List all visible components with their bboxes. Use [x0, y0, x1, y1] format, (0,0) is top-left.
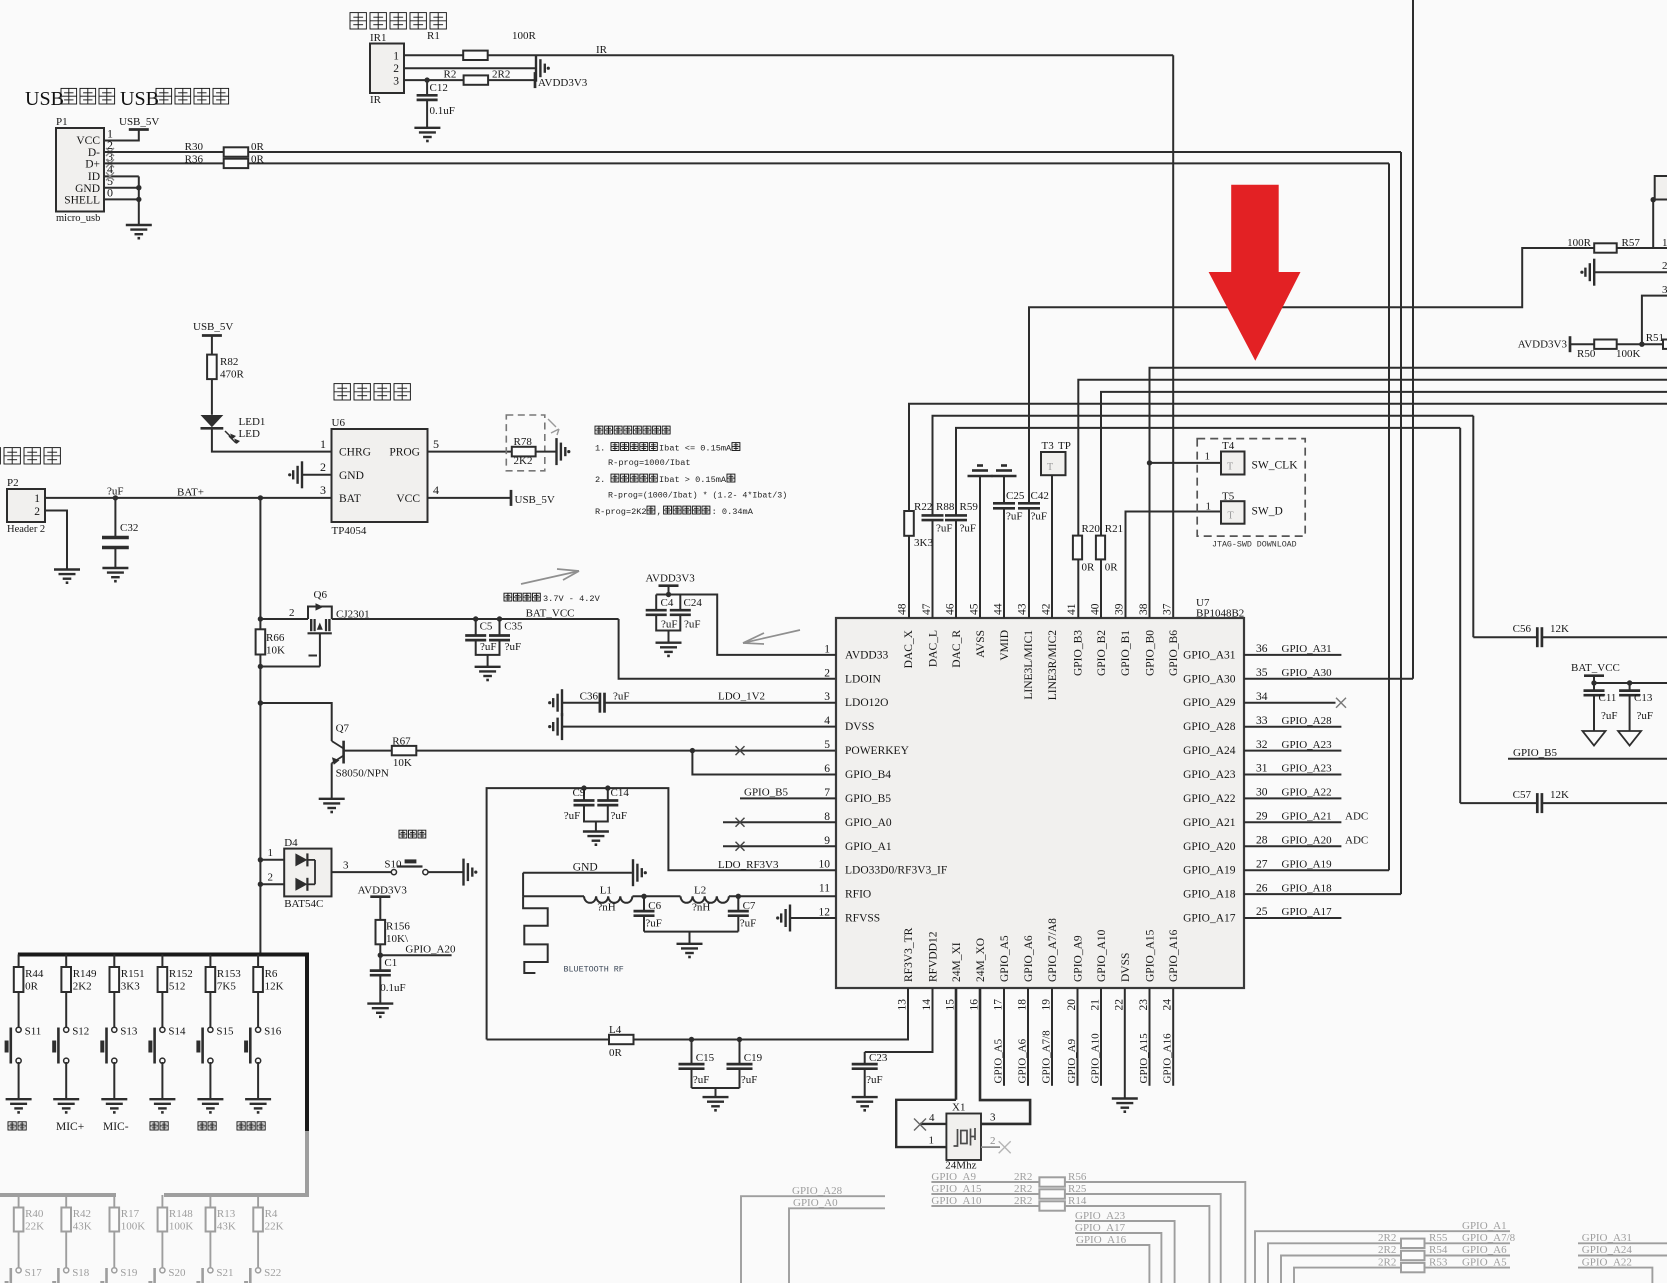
- svg-text:?uF: ?uF: [480, 641, 497, 653]
- svg-text:R42: R42: [73, 1208, 91, 1220]
- ground P2: [54, 568, 80, 570]
- title battery socket: [0, 448, 1, 464]
- ground C9/C14: [583, 830, 609, 832]
- svg-text:100K: 100K: [1616, 348, 1641, 360]
- wire U7 bottom stub GPIO_A10: [1100, 988, 1102, 1086]
- svg-text:R4: R4: [265, 1208, 278, 1220]
- svg-text:LED: LED: [239, 428, 260, 440]
- svg-text:9: 9: [824, 835, 830, 847]
- svg-text:P1: P1: [56, 116, 68, 128]
- svg-text:R82: R82: [220, 356, 238, 368]
- svg-text:TP4054: TP4054: [332, 525, 367, 537]
- wire v4 top edge down to pin35: [1412, 0, 1414, 679]
- wire row2 right: [1594, 271, 1667, 273]
- wire U7 pin12 RFVSS: [790, 917, 836, 919]
- svg-text:GPIO_A31: GPIO_A31: [1582, 1232, 1632, 1244]
- resistor R50 100K: [1594, 340, 1617, 349]
- svg-text:GPIO_A17: GPIO_A17: [1183, 913, 1236, 925]
- wire R50 to R51: [1617, 343, 1663, 345]
- wire S12 to ground: [65, 1062, 67, 1099]
- svg-text:GND: GND: [75, 183, 100, 195]
- svg-text:C42: C42: [1031, 490, 1049, 502]
- switch S12: [65, 992, 67, 1028]
- svg-text:0.1uF: 0.1uF: [380, 982, 405, 994]
- svg-text:20: 20: [1066, 999, 1078, 1011]
- svg-text:R78: R78: [514, 436, 533, 448]
- svg-text:?uF: ?uF: [684, 619, 701, 631]
- resistor R36 0R: [224, 159, 249, 168]
- resistor R66 10K: [256, 629, 266, 654]
- svg-text:SHELL: SHELL: [64, 195, 100, 207]
- svg-text:X1: X1: [952, 1102, 965, 1114]
- svg-text:R13: R13: [217, 1208, 236, 1220]
- svg-text:22K: 22K: [265, 1221, 284, 1233]
- wire SW_CLK to T4: [1150, 462, 1222, 464]
- ground P1: [126, 224, 152, 226]
- svg-text:GPIO_A16: GPIO_A16: [1162, 1033, 1174, 1084]
- wire AVDD3V3 rail to U7 pin1: [656, 595, 836, 655]
- svg-text:AVDD3V3: AVDD3V3: [358, 885, 408, 897]
- svg-text:S11: S11: [25, 1026, 42, 1038]
- wire U7 pin9 GPIO_A1: [723, 845, 836, 847]
- svg-text:C7: C7: [743, 900, 756, 912]
- svg-text:POWERKEY: POWERKEY: [845, 745, 910, 757]
- svg-text:2R2: 2R2: [492, 69, 510, 81]
- wire R156 to GPIO_A20 node: [379, 944, 381, 955]
- dashed box around R78: [506, 415, 545, 471]
- svg-text:1: 1: [34, 493, 40, 505]
- inductor L2: [681, 896, 729, 903]
- capacitor R88: [922, 514, 944, 517]
- svg-text:GPIO_A0: GPIO_A0: [793, 1197, 838, 1209]
- svg-text:R36: R36: [185, 153, 204, 165]
- svg-text:LINE3L/MIC1: LINE3L/MIC1: [1023, 630, 1035, 700]
- svg-text:4: 4: [824, 715, 830, 727]
- svg-text:C14: C14: [611, 787, 630, 799]
- svg-text:GPIO_A9: GPIO_A9: [1066, 1038, 1078, 1083]
- svg-text:22: 22: [1113, 999, 1125, 1011]
- wire USB_5V to R82: [211, 336, 213, 355]
- svg-text:R149: R149: [73, 968, 97, 980]
- svg-text:S8050/NPN: S8050/NPN: [336, 768, 389, 780]
- svg-text:2K2: 2K2: [514, 455, 533, 467]
- svg-text:USB: USB: [120, 88, 159, 110]
- svg-text:3: 3: [343, 860, 349, 872]
- wire U7 pin25 GPIO_A17: [1244, 917, 1341, 919]
- wire col48 top + row4: [909, 404, 1667, 511]
- svg-text:?uF: ?uF: [866, 1074, 883, 1086]
- resistor R13 43K gray: [209, 1195, 211, 1208]
- svg-text:JTAG-SWD DOWNLOAD: JTAG-SWD DOWNLOAD: [1212, 541, 1297, 550]
- svg-text:C24: C24: [684, 597, 703, 609]
- svg-text:R50: R50: [1577, 348, 1596, 360]
- diode LED1 LED: [201, 415, 224, 427]
- svg-text:46: 46: [945, 603, 957, 615]
- svg-text:C25: C25: [1006, 490, 1025, 502]
- wire U7 pin26 GPIO_A18: [1244, 893, 1401, 895]
- wire pin13 col to L4: [634, 988, 909, 1040]
- svg-text:GPIO_A23: GPIO_A23: [1282, 739, 1333, 751]
- svg-text:?uF: ?uF: [505, 641, 521, 653]
- svg-text:11: 11: [819, 883, 830, 895]
- svg-text:GPIO_A20: GPIO_A20: [1183, 841, 1236, 853]
- svg-text:36: 36: [1256, 643, 1268, 655]
- wire row3 right: [1642, 296, 1667, 345]
- svg-text:R30: R30: [185, 141, 204, 153]
- svg-text:TP: TP: [1058, 440, 1071, 452]
- capacitor C42: [1018, 502, 1040, 505]
- svg-text:ADC: ADC: [1345, 835, 1368, 847]
- capacitor C11: [1593, 683, 1595, 690]
- svg-text:18: 18: [1017, 999, 1029, 1011]
- svg-text:P2: P2: [7, 477, 19, 489]
- resistor R152 512: [161, 955, 163, 968]
- svg-text:MIC+: MIC+: [56, 1121, 84, 1133]
- wire col43 to R57 row: [1029, 248, 1594, 503]
- svg-text:?uF: ?uF: [1031, 511, 1048, 523]
- svg-text:1: 1: [1205, 451, 1211, 463]
- svg-text:GPIO_A20: GPIO_A20: [405, 944, 456, 956]
- svg-text:2K2: 2K2: [73, 981, 92, 993]
- svg-text:DVSS: DVSS: [1120, 953, 1132, 982]
- svg-text:40: 40: [1090, 603, 1102, 615]
- power USB_5V at U6 VCC: [510, 490, 513, 506]
- svg-text:34: 34: [1256, 691, 1268, 703]
- wire thick vertical to gray bus: [305, 953, 309, 1132]
- wire U7 pin36 GPIO_A31: [1244, 654, 1341, 656]
- svg-text:S13: S13: [120, 1026, 138, 1038]
- svg-text:3: 3: [1662, 284, 1667, 296]
- svg-text:LDOIN: LDOIN: [845, 673, 881, 685]
- svg-text:24M_XO: 24M_XO: [975, 938, 987, 982]
- svg-text:4: 4: [929, 1112, 935, 1124]
- svg-text:2: 2: [268, 872, 274, 884]
- svg-text:C1: C1: [384, 957, 397, 969]
- capacitor C24: [679, 595, 681, 610]
- wire IR1 pin3: [404, 79, 464, 81]
- ground sideways R78: [555, 438, 557, 465]
- svg-text:GPIO_A24: GPIO_A24: [1582, 1244, 1633, 1256]
- wire C6/C7 bottom join: [644, 931, 738, 933]
- svg-text:1: 1: [929, 1135, 935, 1147]
- ground sideways GND: [632, 859, 634, 886]
- svg-text:C15: C15: [696, 1052, 715, 1064]
- wire col45: [979, 476, 981, 618]
- svg-text:Header 2: Header 2: [7, 524, 45, 535]
- svg-text:GPIO_B1: GPIO_B1: [1120, 630, 1132, 676]
- svg-text:?uF: ?uF: [693, 1074, 710, 1086]
- svg-text:GPIO_A31: GPIO_A31: [1282, 643, 1332, 655]
- resistor R6 12K: [257, 955, 259, 968]
- svg-text:RFVSS: RFVSS: [845, 913, 880, 925]
- svg-text:?nH: ?nH: [692, 902, 710, 914]
- svg-text:470R: 470R: [220, 369, 245, 381]
- svg-text:GPIO_A19: GPIO_A19: [1183, 865, 1236, 877]
- svg-text:DVSS: DVSS: [845, 721, 874, 733]
- svg-text:24M_XI: 24M_XI: [951, 942, 963, 982]
- svg-text:5: 5: [433, 437, 439, 451]
- svg-text:L4: L4: [609, 1024, 622, 1036]
- svg-text:3: 3: [990, 1112, 996, 1124]
- svg-text:GPIO_A7/8: GPIO_A7/8: [1462, 1232, 1516, 1244]
- svg-text:38: 38: [1138, 603, 1150, 615]
- svg-text:GPIO_A17: GPIO_A17: [1282, 906, 1333, 918]
- ground S13: [101, 1098, 127, 1100]
- wire U7 pin31 GPIO_A23: [1244, 774, 1341, 776]
- wire U7 bottom stub GPIO_A9: [1077, 988, 1079, 1086]
- capacitor C13: [1629, 683, 1631, 690]
- connector partial top right: [1655, 176, 1667, 200]
- svg-text:7: 7: [824, 787, 830, 799]
- svg-text:R59: R59: [960, 501, 979, 513]
- svg-text:512: 512: [169, 981, 186, 993]
- svg-text:RFIO: RFIO: [845, 889, 871, 901]
- resistor R4 22K gray: [257, 1195, 259, 1208]
- wire D4 pin3 to S10: [332, 871, 392, 873]
- capacitor C6: [643, 896, 645, 911]
- wire connector pin to R57 row: [1652, 200, 1654, 249]
- svg-text:D+: D+: [85, 158, 100, 170]
- svg-text:GPIO_B0: GPIO_B0: [1145, 630, 1157, 676]
- switch S22 gray: [257, 1232, 259, 1269]
- red arrow annotation: [1209, 185, 1301, 361]
- svg-text:27: 27: [1256, 858, 1268, 870]
- svg-text:3: 3: [320, 483, 326, 497]
- svg-text:IR: IR: [596, 44, 608, 56]
- resistor R44 0R: [18, 955, 20, 968]
- resistor R82 470R: [207, 355, 217, 380]
- test point T4 SW_CLK: [1221, 452, 1245, 475]
- svg-text:AVDD3V3: AVDD3V3: [538, 77, 588, 89]
- wire col47 top + row5: [933, 416, 1474, 515]
- resistor R78 2K2: [512, 447, 536, 457]
- resistor R14 2R2 gray: [1039, 1201, 1065, 1210]
- wire U7 bottom stub GPIO_A15: [1149, 988, 1151, 1086]
- svg-text:C4: C4: [661, 597, 674, 609]
- inductor L1: [584, 896, 632, 903]
- ground up AVSS col45: [968, 475, 993, 478]
- svg-text:C36: C36: [580, 691, 599, 703]
- resistor R153 7K5: [209, 955, 211, 968]
- wire USB D+ row right: [248, 162, 1389, 164]
- capacitor C12 0.1uF: [424, 77, 429, 82]
- ground sideways S10: [462, 859, 464, 886]
- svg-text:?uF: ?uF: [1637, 710, 1654, 722]
- wire C5/C35 join to ground: [476, 640, 500, 655]
- capacitor C36: [599, 693, 602, 713]
- svg-text:GPIO_A23: GPIO_A23: [1183, 769, 1236, 781]
- bus key ladder top (thick): [18, 953, 307, 957]
- wire C9/C14 join: [584, 805, 608, 821]
- svg-text:C56: C56: [1513, 623, 1532, 635]
- svg-text:RFVDD12: RFVDD12: [928, 931, 940, 982]
- svg-text:DAC_X: DAC_X: [903, 629, 915, 668]
- ground S12: [53, 1098, 79, 1100]
- svg-text:R-prog=(1000/Ibat) * (1.2- 4*I: R-prog=(1000/Ibat) * (1.2- 4*Ibat/3): [608, 491, 787, 501]
- svg-text:T: T: [1047, 462, 1053, 473]
- svg-text:R54: R54: [1429, 1244, 1448, 1256]
- capacitor C57: [1536, 793, 1539, 813]
- svg-text:C6: C6: [648, 900, 661, 912]
- svg-text:GPIO_B3: GPIO_B3: [1073, 630, 1085, 676]
- svg-text:GPIO_A28: GPIO_A28: [1282, 715, 1333, 727]
- wire R67 to U7 POWERKEY: [416, 750, 836, 752]
- switch S16: [257, 992, 259, 1028]
- wire v1 R36 net down to pin27: [1388, 163, 1390, 870]
- annotation arrow gray 1: [521, 569, 579, 584]
- svg-text:48: 48: [897, 603, 909, 615]
- wire U7 pin32 GPIO_A23: [1244, 750, 1341, 752]
- svg-text:GPIO_A6: GPIO_A6: [1017, 1038, 1029, 1083]
- svg-text:S21: S21: [216, 1267, 233, 1279]
- wire LDO rail to L4: [487, 1039, 609, 1041]
- svg-text:,: ,: [657, 507, 662, 517]
- svg-text:AVSS: AVSS: [975, 630, 987, 658]
- wire U7 pin27 GPIO_A19: [1244, 869, 1389, 871]
- wire U6 pin2 GND: [302, 474, 332, 476]
- resistor R40 22K gray: [18, 1195, 20, 1208]
- svg-text:0R: 0R: [25, 981, 38, 993]
- svg-text:R17: R17: [121, 1208, 140, 1220]
- ground sideways C36: [561, 689, 563, 716]
- capacitor C7: [737, 896, 739, 911]
- resistor R148 100K gray: [161, 1195, 163, 1208]
- svg-text:S20: S20: [168, 1267, 186, 1279]
- svg-text:BAT+: BAT+: [177, 487, 204, 499]
- resistor R20 0R: [1073, 536, 1082, 560]
- wire P1 pin5 GND: [104, 187, 139, 189]
- svg-text:100K: 100K: [169, 1221, 194, 1233]
- svg-text:GPIO_A21: GPIO_A21: [1183, 817, 1236, 829]
- annotation arrow gray 2: [743, 630, 800, 644]
- svg-text:AVDD3V3: AVDD3V3: [646, 573, 696, 585]
- svg-text:GPIO_A21: GPIO_A21: [1282, 811, 1332, 823]
- svg-text:2R2: 2R2: [1378, 1232, 1396, 1244]
- wire C11/C13 top rail: [1594, 682, 1667, 684]
- svg-text:2: 2: [34, 506, 40, 518]
- resistor R149 2K2: [65, 955, 67, 968]
- svg-text:U6: U6: [332, 417, 346, 429]
- svg-text:S14: S14: [168, 1026, 186, 1038]
- svg-text:2R2: 2R2: [1014, 1183, 1032, 1195]
- svg-text:?uF: ?uF: [1006, 511, 1023, 523]
- svg-text:GPIO_A5: GPIO_A5: [999, 935, 1011, 982]
- wire U6 pin5 PROG: [428, 451, 512, 453]
- ground U7 pin22 DVSS: [1124, 988, 1126, 1098]
- svg-text:3.7V - 4.2V: 3.7V - 4.2V: [543, 594, 601, 604]
- svg-text:2R2: 2R2: [1014, 1195, 1032, 1207]
- svg-text:45: 45: [969, 603, 981, 615]
- svg-text:AVDD3V3: AVDD3V3: [1518, 339, 1568, 351]
- labels key functions: [8, 1122, 16, 1130]
- svg-text:T4: T4: [1222, 440, 1235, 452]
- ground C12: [414, 127, 440, 129]
- svg-text:S16: S16: [264, 1026, 282, 1038]
- svg-text:GPIO_A10: GPIO_A10: [1090, 1033, 1102, 1084]
- wire D4 pin2: [260, 883, 284, 885]
- svg-text:C35: C35: [504, 621, 523, 633]
- power AVDD3V3 at IR: [534, 72, 537, 88]
- svg-text:?uF: ?uF: [645, 918, 662, 930]
- svg-text:?uF: ?uF: [741, 1074, 758, 1086]
- svg-text:?uF: ?uF: [661, 619, 678, 631]
- connector IR1: [370, 44, 404, 94]
- wire col40 + row3: [1101, 392, 1667, 536]
- svg-text:LDO12O: LDO12O: [845, 697, 888, 709]
- svg-text:41: 41: [1066, 603, 1078, 615]
- IC U7 BP1048B2: [836, 618, 1244, 988]
- diode D4 BAT54C: [284, 849, 331, 897]
- capacitor C15: [691, 1040, 693, 1064]
- svg-text:5: 5: [824, 739, 830, 751]
- svg-text:VCC: VCC: [76, 135, 100, 147]
- wire S10 to ground: [428, 871, 463, 873]
- wire v5 row5 down to C56: [1472, 416, 1474, 638]
- svg-text:R21: R21: [1105, 523, 1123, 535]
- svg-text:C5: C5: [480, 621, 493, 633]
- ground S15: [197, 1098, 223, 1100]
- svg-text:31: 31: [1256, 763, 1268, 775]
- wire antenna vertical: [522, 873, 524, 897]
- svg-text:44: 44: [993, 603, 1005, 615]
- svg-text:32: 32: [1256, 739, 1268, 751]
- svg-text:23: 23: [1138, 999, 1150, 1011]
- svg-text:39: 39: [1113, 603, 1125, 615]
- svg-text:GND: GND: [339, 470, 364, 482]
- svg-text:VCC: VCC: [396, 493, 420, 505]
- svg-text:43K: 43K: [73, 1221, 92, 1233]
- wire U7 bottom stub GPIO_A7/8: [1051, 988, 1053, 1086]
- connector P1 micro_usb: [56, 128, 104, 212]
- svg-text:100R: 100R: [1567, 237, 1592, 249]
- svg-text:T3: T3: [1042, 440, 1055, 452]
- svg-text:C11: C11: [1599, 692, 1617, 704]
- svg-text:GPIO_A5: GPIO_A5: [1462, 1256, 1507, 1268]
- svg-text:2: 2: [824, 667, 830, 679]
- svg-text:12K: 12K: [265, 981, 284, 993]
- svg-text:C13: C13: [1634, 692, 1653, 704]
- svg-text:R148: R148: [169, 1208, 193, 1220]
- svg-text:USB_5V: USB_5V: [515, 494, 555, 506]
- wire Q7 emitter to ground: [331, 763, 333, 798]
- wire U7 bottom stub GPIO_A16: [1172, 988, 1174, 1086]
- note battery voltage text: [504, 593, 512, 601]
- svg-text:R53: R53: [1429, 1256, 1448, 1268]
- svg-text:R55: R55: [1429, 1232, 1448, 1244]
- svg-text:1: 1: [1206, 501, 1212, 513]
- wire S11 to ground: [18, 1062, 20, 1099]
- svg-text:SW_D: SW_D: [1252, 506, 1283, 518]
- capacitor C5: [475, 619, 477, 635]
- svg-text:GPIO_B5: GPIO_B5: [845, 793, 891, 805]
- svg-text:S19: S19: [120, 1267, 138, 1279]
- wire X1 pin4 no connect: [920, 1123, 946, 1125]
- svg-text:12: 12: [819, 907, 831, 919]
- svg-text:T: T: [1228, 511, 1234, 522]
- svg-text:micro_usb: micro_usb: [56, 213, 100, 224]
- svg-text:24: 24: [1162, 999, 1174, 1011]
- title charging circuit: [334, 384, 350, 400]
- wire v2 R30 net down to pin26: [1400, 152, 1402, 894]
- IC U6 TP4054: [332, 429, 428, 522]
- svg-text:2: 2: [289, 607, 295, 619]
- svg-text:RF3V3_TR: RF3V3_TR: [903, 927, 915, 982]
- svg-text:R156: R156: [386, 921, 410, 933]
- svg-text:GPIO_A16: GPIO_A16: [1168, 929, 1180, 982]
- svg-text:S17: S17: [25, 1267, 43, 1279]
- resistor R56 2R2 gray: [1039, 1177, 1065, 1186]
- title IR receiver: [350, 13, 366, 29]
